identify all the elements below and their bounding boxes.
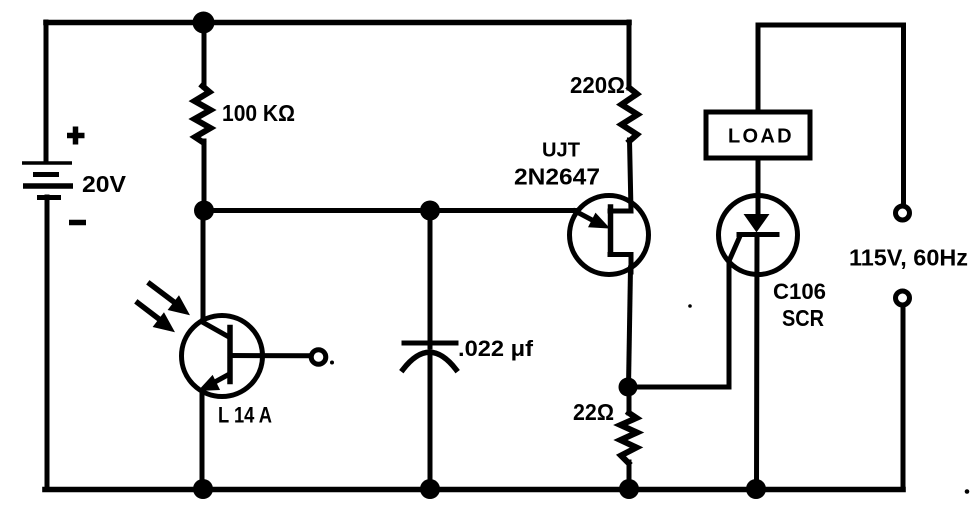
wire battery bottom lead xyxy=(45,197,50,489)
wire capacitor top lead xyxy=(428,211,433,348)
junction dot bottom rail at x204 xyxy=(193,479,213,499)
svg-text:.022 μf: .022 μf xyxy=(458,336,534,361)
junction dot node C capacitor top xyxy=(420,201,440,221)
node A junction dot xyxy=(193,12,215,34)
svg-text:22Ω: 22Ω xyxy=(573,399,614,425)
capacitor C1 .022uf xyxy=(403,343,456,370)
wire LOAD top to AC terminal xyxy=(758,25,904,204)
wire gate: node D to SCR gate xyxy=(628,236,740,387)
wire left branch upper xyxy=(202,22,207,87)
junction dot bottom rail at x430 xyxy=(420,479,440,499)
AC source label 115V 60Hz xyxy=(849,245,968,271)
wire SCR cathode to bottom rail xyxy=(754,235,760,489)
SCR label SCR xyxy=(782,305,824,331)
node B junction dot xyxy=(194,201,214,221)
wire capacitor bottom lead xyxy=(428,357,433,489)
junction dot bottom rail at x629 xyxy=(619,479,639,499)
stray ink dot near UJT xyxy=(688,304,692,308)
resistor R1 100 KOhm xyxy=(195,86,211,142)
svg-text:UJT: UJT xyxy=(542,140,580,162)
light arrow 2 xyxy=(138,303,174,332)
UJT label xyxy=(542,140,580,162)
svg-text:100 KΩ: 100 KΩ xyxy=(222,100,295,126)
resistor R1 value label 100 KOhm xyxy=(222,100,295,126)
SCR label C106 xyxy=(773,279,826,304)
AC terminal top open circle xyxy=(896,206,910,220)
AC terminal bottom open circle xyxy=(896,291,910,305)
wire AC bottom terminal to bottom rail xyxy=(901,306,906,489)
phototransistor label L14A xyxy=(218,403,272,428)
period dot after terminal xyxy=(330,361,334,365)
LOAD box xyxy=(706,112,810,158)
svg-text:SCR: SCR xyxy=(782,305,824,331)
battery B1 20V xyxy=(22,163,73,198)
wire 22 Ohm to bottom rail xyxy=(627,462,632,489)
wire 220 Ohm top lead xyxy=(627,22,632,88)
battery plus label xyxy=(67,127,85,145)
UJT Q2 2N2647 xyxy=(570,196,649,275)
wire phototransistor emitter to bottom rail xyxy=(200,392,205,489)
stray ink dot bottom right xyxy=(965,489,970,494)
phototransistor base open terminal xyxy=(311,350,326,365)
phototransistor Q1 L14A xyxy=(182,316,312,397)
resistor R3 value label 22 Ohm xyxy=(573,399,614,425)
UJT part number label 2N2647 xyxy=(514,164,600,190)
node D junction dot xyxy=(619,378,638,397)
battery value 20V xyxy=(82,171,127,197)
light arrow 1 xyxy=(150,284,189,315)
svg-text:115V, 60Hz: 115V, 60Hz xyxy=(849,245,968,271)
junction dot bottom rail at x756 xyxy=(746,479,766,499)
wire top rail xyxy=(46,20,629,26)
svg-text:L 14 A: L 14 A xyxy=(218,403,272,428)
wire resistor R1 to node A xyxy=(202,141,207,211)
battery minus label xyxy=(69,220,86,226)
resistor R2 value label 220 Ohm xyxy=(570,72,625,98)
wire mid horizontal xyxy=(204,208,577,213)
svg-text:20V: 20V xyxy=(82,171,127,197)
LOAD label xyxy=(728,126,794,148)
wire battery top lead xyxy=(44,22,49,162)
wire UJT base1 to node D xyxy=(629,268,631,387)
wire LOAD bottom to SCR anode xyxy=(756,158,761,216)
resistor R2 220 Ohm xyxy=(622,88,638,141)
wire 220 Ohm to UJT base2 xyxy=(610,140,631,211)
svg-text:LOAD: LOAD xyxy=(728,126,794,148)
wire bottom rail xyxy=(45,487,903,493)
svg-text:220Ω: 220Ω xyxy=(570,72,625,98)
resistor R3 22 Ohm xyxy=(621,413,638,463)
capacitor C1 value label xyxy=(458,336,534,361)
SCR Q3 C106 xyxy=(719,196,798,275)
svg-text:2N2647: 2N2647 xyxy=(514,164,600,190)
svg-text:C106: C106 xyxy=(773,279,826,304)
wire phototransistor collector xyxy=(201,211,206,322)
wire node D to 22 Ohm xyxy=(627,387,632,413)
